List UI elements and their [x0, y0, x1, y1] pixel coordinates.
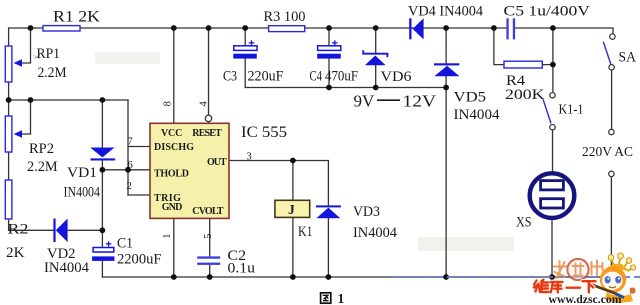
svg-text:R1 2K: R1 2K	[53, 9, 100, 26]
switch K1-1	[543, 93, 555, 130]
resistor R1	[43, 26, 80, 31]
relay coil J box	[275, 200, 310, 217]
svg-text:2.2M: 2.2M	[38, 65, 67, 81]
wire K1-1 branch	[552, 28, 554, 173]
svg-text:K1: K1	[298, 224, 313, 240]
svg-text:IN4004: IN4004	[64, 185, 101, 201]
wire top rail right + corner to SA	[515, 28, 613, 34]
watermark brand text	[534, 280, 596, 293]
junction mid rail / VD6	[373, 85, 379, 91]
svg-text:DISCHG: DISCHG	[154, 142, 194, 153]
junction bottom rail / C2	[207, 274, 213, 280]
svg-text:R3 100: R3 100	[264, 9, 306, 25]
switch SA	[603, 34, 615, 70]
RP2 wiper arrow	[14, 130, 22, 138]
junction mid rail / VD5	[443, 85, 449, 91]
svg-text:5: 5	[203, 234, 214, 239]
resistor R2	[5, 180, 12, 219]
svg-text:220uF: 220uF	[248, 68, 284, 84]
wire VD2 right	[68, 229, 103, 231]
wire VD5 branch	[445, 28, 447, 277]
junction pin6 / pin2-7 tie	[125, 167, 131, 173]
svg-text:IN4004: IN4004	[44, 260, 89, 276]
wire left spine RP1-RP2-R2	[9, 28, 54, 230]
socket XS	[530, 173, 575, 218]
wire RP2 wiper	[21, 100, 31, 134]
svg-text:VD3: VD3	[353, 204, 380, 220]
junction bottom rail / relay	[290, 274, 296, 280]
wire relay branch	[292, 161, 294, 278]
junction top rail / R4	[491, 25, 497, 31]
svg-text:0.1u: 0.1u	[228, 261, 256, 277]
wire RP1 wiper	[21, 28, 31, 63]
junction OUT / relay	[290, 158, 296, 164]
wire pin2	[128, 194, 150, 196]
junction node A left	[6, 97, 12, 103]
pin numbers	[127, 101, 252, 239]
diode VD3	[316, 205, 341, 218]
svg-text:VCC: VCC	[161, 128, 182, 139]
wire VD3 bottom	[327, 218, 329, 277]
junction R4 / K1-1 branch	[550, 62, 556, 68]
junction mid rail / C4	[326, 85, 332, 91]
svg-text:220V AC: 220V AC	[582, 145, 633, 160]
svg-text:2: 2	[127, 181, 132, 192]
junction top rail / VD6	[373, 25, 379, 31]
junction bottom rail / pin1	[171, 274, 177, 280]
svg-text:R2: R2	[8, 222, 29, 238]
diode VD5	[434, 63, 460, 76]
wire mid horizontal y100	[9, 99, 128, 101]
potentiometer RP2 body	[5, 116, 12, 152]
svg-text:CVOLT: CVOLT	[192, 206, 224, 217]
junction bottom rail / XS	[549, 274, 555, 280]
svg-text:OUT: OUT	[207, 157, 227, 168]
svg-text:RP1: RP1	[37, 46, 61, 62]
wire R4 branch	[494, 28, 553, 65]
watermark ghost text	[554, 259, 603, 280]
wire VD6 leads	[375, 28, 377, 88]
IC U1 555 timer body	[150, 123, 229, 218]
svg-text:IN4004: IN4004	[454, 107, 501, 123]
220V AC terminals	[609, 129, 614, 134]
wire pin7	[128, 146, 150, 148]
wire top rail	[9, 27, 507, 29]
svg-text:RESET: RESET	[192, 128, 222, 139]
wire pin1	[173, 218, 175, 277]
wire mid rail y87	[245, 87, 446, 89]
svg-text:6: 6	[128, 160, 133, 171]
svg-text:VD6: VD6	[381, 69, 413, 85]
svg-text:THOLD: THOLD	[154, 168, 189, 179]
junction bottom rail / VD5	[443, 274, 449, 280]
resistor R4	[504, 61, 542, 68]
svg-text:K1-1: K1-1	[559, 103, 584, 118]
junction VD1 cathode / pin6	[100, 167, 106, 173]
junction node A / RP2 wiper	[28, 97, 34, 103]
capacitor C3	[233, 40, 257, 58]
svg-text:IC 555: IC 555	[241, 124, 287, 141]
junction top rail / RP1 wiper	[28, 25, 34, 31]
caption fig1	[321, 291, 345, 305]
svg-text:7: 7	[128, 137, 133, 148]
zener diode VD6	[363, 50, 387, 65]
svg-text:VD4 IN4004: VD4 IN4004	[408, 4, 483, 20]
svg-text:470uF: 470uF	[325, 69, 358, 85]
diode VD2	[53, 219, 67, 243]
svg-text:C3: C3	[223, 68, 237, 84]
diode VD1	[90, 148, 115, 161]
watermark mascot	[591, 253, 636, 303]
junction top rail / C4	[326, 25, 332, 31]
watermark dashed line	[392, 276, 640, 278]
junction top rail / K1-1	[550, 25, 556, 31]
resistor R3	[269, 26, 305, 32]
wire SA branch	[610, 70, 612, 277]
wire pin5 C2	[209, 218, 211, 277]
svg-text:C1: C1	[117, 236, 133, 252]
diode VD4	[409, 18, 423, 39]
junction VD2 / C1	[100, 227, 106, 233]
wire VD1 branch	[101, 100, 103, 230]
svg-text:4: 4	[198, 101, 209, 107]
junction top rail / C3	[242, 25, 248, 31]
RP1 wiper arrow	[14, 59, 22, 67]
capacitor C5	[506, 18, 515, 39]
wire pin3 out	[229, 161, 328, 206]
ghost artifact rects	[95, 52, 160, 64]
svg-text:200K: 200K	[505, 87, 545, 103]
wire XS bottom	[551, 218, 553, 277]
svg-text:1: 1	[338, 291, 345, 305]
wire bottom rail	[102, 276, 611, 278]
svg-text:C4: C4	[310, 69, 323, 85]
svg-text:www.dzsc.com: www.dzsc.com	[549, 294, 622, 305]
svg-text:12V: 12V	[403, 92, 437, 111]
junction top rail / pin8	[171, 25, 177, 31]
wire pin8	[173, 28, 175, 123]
junction node A / VD1	[100, 97, 106, 103]
svg-text:2.2M: 2.2M	[27, 159, 58, 175]
capacitor C1	[92, 241, 114, 261]
capacitor C2	[197, 256, 220, 265]
wire pin6	[102, 169, 150, 171]
svg-text:VD5: VD5	[454, 90, 487, 106]
junction top rail / VD4-VD5	[443, 25, 449, 31]
svg-text:VD1: VD1	[67, 165, 97, 181]
wire C4 leads	[328, 28, 330, 88]
svg-text:3: 3	[247, 152, 252, 163]
svg-text:2200uF: 2200uF	[117, 252, 162, 268]
junction bottom rail / VD3	[326, 274, 332, 280]
svg-text:SA: SA	[619, 50, 637, 66]
svg-text:1: 1	[162, 233, 173, 238]
svg-text:XS: XS	[516, 215, 532, 231]
svg-text:C5 1u/400V: C5 1u/400V	[504, 4, 591, 20]
capacitor C4	[317, 40, 341, 58]
svg-text:RP2: RP2	[29, 141, 54, 157]
svg-text:GND: GND	[162, 202, 183, 213]
wire C1 leads	[101, 230, 103, 277]
wire vertical to pins 7,2	[127, 100, 129, 195]
svg-text:2K: 2K	[6, 245, 25, 261]
potentiometer RP1 body	[5, 46, 12, 82]
svg-text:8: 8	[163, 101, 174, 106]
wire pin4	[208, 28, 210, 123]
junction top rail / pin4	[206, 25, 212, 31]
svg-text:9V: 9V	[354, 92, 376, 111]
svg-text:IN4004: IN4004	[353, 225, 397, 241]
wire C3 leads	[244, 28, 246, 88]
RESET pin circle	[205, 115, 211, 121]
IC pin names	[154, 128, 227, 217]
svg-text:J: J	[288, 202, 295, 217]
